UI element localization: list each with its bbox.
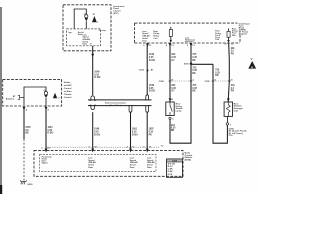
svg-text:1049: 1049 [149, 53, 155, 56]
bus connector staple bottom at x=147.5 [145, 106, 150, 113]
svg-text:Heater: Heater [64, 81, 71, 84]
svg-text:D-BU: D-BU [132, 134, 138, 136]
module box: Underhood Fuse Block (dashed) [135, 23, 240, 43]
fuse F1 [170, 27, 172, 30]
svg-text:PK: PK [231, 54, 235, 56]
wire: IPC indicator loop [74, 9, 86, 29]
svg-text:(Engine): (Engine) [239, 34, 247, 36]
arrowhead into module [45, 149, 48, 153]
fuse F2 [228, 28, 230, 31]
svg-text:0.35: 0.35 [149, 57, 154, 59]
svg-text:10A: 10A [215, 38, 219, 41]
bus connector staple bottom at x=131 [128, 106, 133, 113]
svg-text:C305: C305 [172, 161, 178, 163]
svg-text:BK: BK [192, 60, 196, 62]
arrowhead into module [129, 149, 132, 153]
bus connector staple top at x=93 [90, 96, 96, 101]
svg-text:25A: 25A [232, 34, 236, 37]
inline connector C200 [146, 70, 149, 73]
wire: HVAC loop [24, 87, 46, 105]
serial data dotted continuation [47, 146, 161, 148]
module box: Instrument Panel Cluster (dashed) [63, 5, 111, 51]
svg-text:A D-GN: A D-GN [168, 163, 176, 166]
svg-text:1049: 1049 [94, 128, 100, 131]
svg-text:BK: BK [192, 90, 196, 92]
svg-text:(BCM): (BCM) [185, 160, 192, 162]
svg-text:0.35: 0.35 [192, 57, 197, 59]
svg-text:BN: BN [171, 130, 175, 132]
C305 tick on wire4 [228, 80, 231, 82]
connector ring below grid [226, 123, 228, 125]
wire 3: low reference [190, 43, 192, 95]
svg-text:1061: 1061 [132, 129, 138, 131]
svg-text:GY: GY [171, 90, 175, 92]
lamp symbol in HVAC [44, 92, 47, 95]
diagnostic triangle callout 1 [92, 16, 97, 22]
wire: bus drop at x=130.5 [130, 112, 132, 150]
module box: HVAC control (dashed) [3, 79, 62, 106]
wire: IPC serial data drop [92, 46, 94, 95]
C305 tick on wire3 [190, 80, 193, 82]
svg-text:0.35: 0.35 [171, 57, 176, 59]
component: Rear Defogger Switch box [166, 102, 174, 116]
diagnostic triangle callout 3 [248, 61, 256, 69]
connector C305 dotted line [170, 80, 191, 82]
svg-text:0.35: 0.35 [132, 132, 137, 134]
svg-text:Ambient: Ambient [6, 98, 15, 101]
svg-text:1807: 1807 [149, 129, 155, 131]
left page border bar [0, 7, 2, 194]
connector dot under fuse F2 [227, 40, 230, 43]
svg-text:and A/C: and A/C [64, 84, 72, 87]
svg-text:C305: C305 [159, 81, 165, 83]
svg-text:Climate: Climate [64, 93, 73, 96]
svg-text:GY: GY [171, 60, 175, 62]
C305 tick on wire2 [169, 80, 172, 82]
svg-text:Lamp: Lamp [176, 111, 182, 113]
svg-text:PK: PK [149, 134, 153, 136]
bus connector staple bottom at x=93 [90, 105, 96, 110]
svg-text:D-GN: D-GN [149, 90, 155, 92]
connector table [167, 159, 183, 177]
svg-text:C305: C305 [205, 81, 211, 83]
svg-text:Coil: Coil [153, 38, 157, 40]
BCM inner dashed box [40, 154, 156, 171]
wire 1: serial data from fuse block to bus [146, 43, 148, 95]
svg-text:1049: 1049 [149, 84, 155, 87]
svg-text:1049: 1049 [94, 71, 100, 74]
wire: bus drop at x=92.7 [92, 112, 94, 150]
svg-text:Control: Control [64, 96, 72, 99]
svg-text:D-GN: D-GN [94, 77, 100, 79]
C305 tick on branch [212, 80, 215, 82]
diagnostic triangle callout 2 [53, 93, 57, 98]
arrowhead into module [146, 149, 149, 153]
bracket connector [18, 95, 20, 99]
svg-text:D-GN: D-GN [94, 134, 100, 136]
connector below switch [169, 117, 171, 119]
IPC inner dashed box (serial data interface) [67, 29, 101, 46]
wire 2: relay coil to defog switch [169, 43, 171, 102]
svg-text:17: 17 [90, 44, 92, 46]
svg-text:BK: BK [25, 132, 29, 134]
svg-text:(IPC): (IPC) [113, 13, 118, 15]
svg-text:Signal: Signal [42, 163, 48, 165]
bus: data communication lines [88, 99, 152, 101]
svg-text:BK: BK [192, 73, 196, 75]
bus connector staple top at x=147.5 [145, 95, 150, 100]
svg-text:F Lamp: F Lamp [99, 30, 107, 32]
svg-text:(Serial Data): (Serial Data) [110, 104, 122, 107]
indicator lamp symbol (IPC telltale) [85, 15, 88, 18]
svg-text:0.35: 0.35 [149, 132, 154, 134]
svg-text:0.35: 0.35 [192, 70, 197, 72]
switch symbol inside [170, 102, 172, 116]
arrowhead into grid [227, 98, 230, 101]
svg-text:S310: S310 [184, 64, 190, 66]
wire: splice branch to right [191, 63, 213, 65]
arrowhead at box exit [146, 43, 149, 46]
arrowhead into module [91, 149, 94, 153]
svg-text:0.35: 0.35 [94, 132, 99, 134]
connector dot under fuse F1 [170, 40, 173, 43]
svg-text:D-GN: D-GN [149, 60, 155, 62]
wire 4: defog feed [228, 43, 229, 102]
wire: HVAC serial data drop [45, 106, 47, 150]
svg-text:Control: Control [64, 87, 72, 90]
arrowhead on IPC wire [91, 54, 94, 58]
svg-text:D-BU: D-BU [48, 132, 54, 134]
component: Rear Window Defogger Grid box [224, 102, 232, 116]
svg-text:BK: BK [215, 75, 219, 77]
wire: switch to splice loop [170, 94, 191, 143]
wire: splice branch down [213, 64, 227, 143]
wire: HVAC ground drop (solid then dashed) [23, 106, 25, 139]
grid element symbol [226, 102, 230, 116]
svg-text:w/ Auto: w/ Auto [64, 90, 72, 93]
svg-text:E PK: E PK [168, 174, 173, 176]
svg-text:PK: PK [231, 90, 235, 92]
splice dot S310 [190, 62, 193, 65]
svg-text:C210: C210 [139, 70, 145, 72]
ground symbol G200 [21, 180, 27, 184]
wire: bus drop at x=147.2 [146, 112, 148, 150]
svg-text:Grid: Grid [234, 110, 239, 112]
arrowhead into switch [169, 98, 172, 101]
module box: Body Control Module (outer dashed) [34, 150, 183, 176]
svg-text:G200: G200 [27, 184, 33, 186]
